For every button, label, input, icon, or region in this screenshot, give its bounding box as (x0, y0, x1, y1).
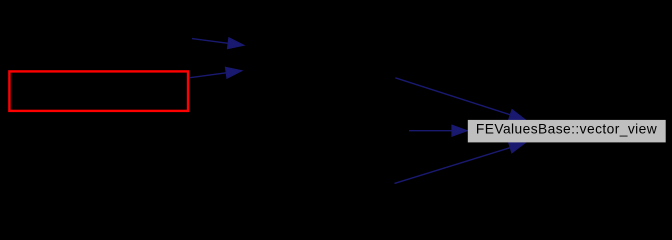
wire: edge 5 diagonal into bottom edge of gray box (395, 142, 526, 183)
wire: edge 1 from top-left node to middle node (192, 38, 244, 49)
wire: edge 4 horizontal into left edge of gray box (409, 125, 467, 136)
node: current function (gray box) FEValuesBase::vector_view (468, 120, 666, 142)
svg-text:FEValuesBase::vector_view: FEValuesBase::vector_view (476, 122, 657, 137)
wire: edge 3 diagonal into top edge of gray box (395, 78, 525, 120)
wire: edge 2 from red box to middle node (189, 67, 242, 78)
node: red-outlined caller box (label not visible) (9, 71, 188, 111)
